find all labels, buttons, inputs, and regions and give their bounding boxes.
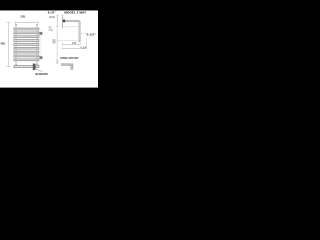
- svg-text:6 1/2": 6 1/2": [87, 33, 97, 37]
- svg-text:8 1/2": 8 1/2": [48, 11, 56, 15]
- svg-text:POWER CORD 2WAY: POWER CORD 2WAY: [60, 57, 79, 60]
- svg-text:150: 150: [72, 41, 77, 45]
- svg-text:450: 450: [0, 42, 5, 46]
- svg-text:NZQS0450: NZQS0450: [35, 72, 48, 76]
- svg-text:(215): (215): [49, 15, 55, 19]
- svg-text:mm: mm: [49, 29, 54, 32]
- svg-text:MODEL 2 WAY: MODEL 2 WAY: [64, 10, 87, 14]
- svg-text:335: 335: [20, 15, 25, 19]
- svg-text:4 3/4": 4 3/4": [80, 46, 87, 50]
